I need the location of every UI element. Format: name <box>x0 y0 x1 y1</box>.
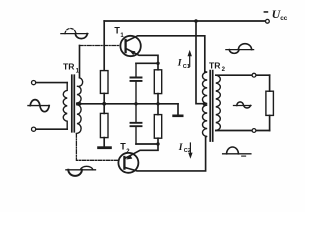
transistor T1 collector lead to TR2 <box>126 36 205 72</box>
emitter arrow T1 <box>130 51 136 56</box>
resistor R2 <box>100 113 108 137</box>
transistor T2 emitter lead <box>125 144 158 159</box>
svg-text:TR: TR <box>63 62 75 72</box>
ground bar right <box>174 115 183 118</box>
wire emitter node line T2 <box>136 143 158 145</box>
transformer TR2 core <box>210 71 213 141</box>
waveform icon base current T2 <box>66 169 96 171</box>
capacitor C1 lead <box>135 63 137 104</box>
wire dash-dot base lead T1 <box>80 45 121 47</box>
wire RE1 leads <box>157 63 159 104</box>
transformer TR2 primary lower half <box>202 105 207 137</box>
wire -Ucc feed to TR2 center tap <box>196 21 205 104</box>
svg-text:I: I <box>177 57 182 68</box>
wire center line (bias node) <box>77 103 178 105</box>
wire RE2 leads <box>157 104 159 144</box>
input sine icon <box>28 105 49 107</box>
transformer TR1 secondary lower half <box>77 105 82 134</box>
junction resistor column <box>156 102 159 105</box>
label -Ucc <box>264 7 288 22</box>
wire Rload leads <box>269 75 271 130</box>
waveform icon base current T1 (dashed positive half) <box>61 33 88 35</box>
ground bar under R2 <box>99 146 111 149</box>
resistor Rload <box>266 91 274 115</box>
arrow IC2 <box>189 143 191 154</box>
wire input lower <box>36 128 67 130</box>
wire rail drop to R1 <box>103 21 105 71</box>
output terminal upper <box>252 73 256 77</box>
wire TR1 secondary top lead <box>79 46 81 78</box>
capacitor C2 <box>131 123 142 126</box>
wire output lower <box>216 130 270 132</box>
transformer TR2 secondary <box>216 75 221 130</box>
transistor T2 <box>118 153 138 173</box>
svg-text:cc: cc <box>280 15 288 22</box>
svg-text:C1: C1 <box>183 64 190 70</box>
resistor RE1 <box>154 70 161 94</box>
wire R2 leads <box>103 104 105 146</box>
input terminal lower <box>31 127 35 131</box>
capacitor C1 <box>131 78 142 81</box>
transformer TR2 primary upper half <box>202 71 207 103</box>
transistor T1 <box>120 36 140 56</box>
junction center tap TR1 <box>78 102 81 105</box>
resistor R1 <box>100 71 108 94</box>
waveform icon half sine IC2 <box>223 153 251 155</box>
junction TR2 center tap <box>203 102 207 106</box>
wire R1 to center line <box>103 93 105 103</box>
label IC2 <box>178 142 191 154</box>
junction on rail <box>194 19 198 23</box>
junction divider <box>102 102 106 106</box>
transistor T1 emitter lead <box>126 49 158 64</box>
waveform icon collector current upper <box>226 49 254 51</box>
waveform icon output sine <box>234 105 252 107</box>
wire input upper <box>36 82 67 84</box>
emitter arrow T2 <box>126 155 132 160</box>
junction capacitor column <box>134 102 137 105</box>
wire center line to ground <box>177 104 179 114</box>
capacitor C2 lead <box>135 104 137 144</box>
junction emitter node T1 <box>156 62 159 65</box>
label IC1 <box>177 57 190 69</box>
svg-text:2: 2 <box>126 149 130 155</box>
transformer TR1 secondary upper half <box>77 78 83 103</box>
input terminal upper <box>31 81 35 85</box>
transistor T2 collector lead to TR2 <box>125 137 206 171</box>
wire output upper <box>216 74 270 76</box>
junction emitter node T2 <box>156 142 159 145</box>
resistor RE2 <box>154 115 161 139</box>
wire emitter node line T1 <box>136 62 158 64</box>
svg-text:I: I <box>178 142 183 153</box>
wire top supply rail <box>104 20 265 22</box>
wire dash-dot base lead T2 <box>76 134 119 161</box>
arrow IC1 <box>189 55 191 67</box>
terminal -Ucc <box>266 19 270 23</box>
svg-text:2: 2 <box>222 67 226 73</box>
svg-text:TR: TR <box>209 60 221 70</box>
transformer TR1 primary winding <box>63 83 67 130</box>
transformer TR1 core <box>72 75 75 132</box>
output terminal lower <box>252 129 256 133</box>
